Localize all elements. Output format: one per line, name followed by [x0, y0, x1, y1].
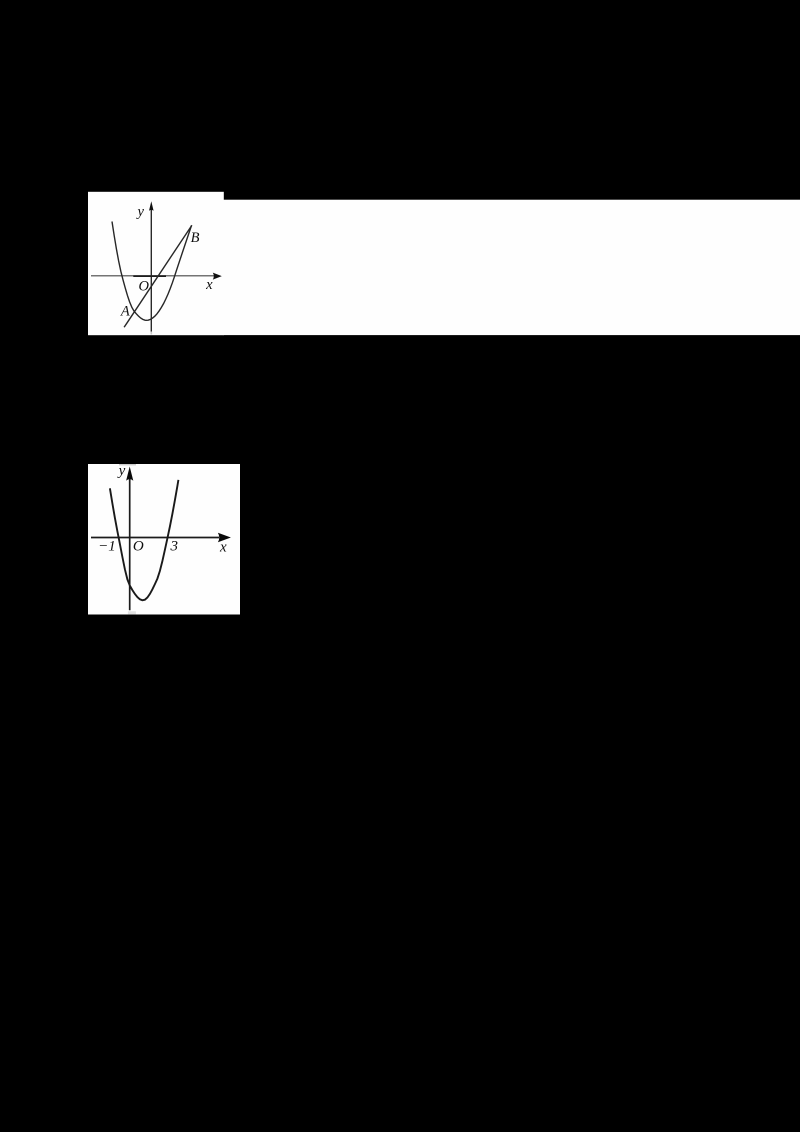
svg-text:B: B	[191, 230, 200, 246]
white strip right of figure 1	[223, 200, 800, 335]
graph2 y-axis bottom stub	[128, 611, 136, 614]
graph1 parabola	[112, 222, 192, 321]
svg-text:y: y	[117, 463, 126, 479]
graph1 x-axis arrowhead	[213, 273, 222, 280]
graph1 y-axis	[150, 210, 152, 332]
svg-text:A: A	[120, 304, 130, 320]
svg-text:O: O	[133, 539, 144, 555]
graph1 y-axis arrowhead	[149, 201, 154, 211]
graph2 x-axis arrowhead	[218, 533, 231, 543]
graph2 parabola	[110, 480, 178, 600]
figure 2 white box	[88, 464, 240, 615]
svg-text:−1: −1	[98, 539, 116, 555]
svg-text:x: x	[219, 540, 227, 556]
graph2 y-axis top stub	[119, 464, 136, 465]
graph1 x-axis	[91, 275, 214, 277]
svg-text:O: O	[138, 279, 149, 295]
graph1 y-axis bottom stub	[151, 332, 153, 335]
graph2 y-axis arrowhead	[126, 467, 133, 481]
figure 1 white box	[88, 192, 224, 335]
svg-text:y: y	[135, 204, 144, 220]
svg-text:x: x	[205, 277, 213, 293]
graph2 x-axis	[91, 537, 219, 539]
graph2 y-axis	[129, 478, 131, 610]
graph1 x-axis dark segment	[133, 275, 166, 277]
graph1 line AB	[124, 225, 192, 327]
svg-text:3: 3	[170, 539, 179, 555]
